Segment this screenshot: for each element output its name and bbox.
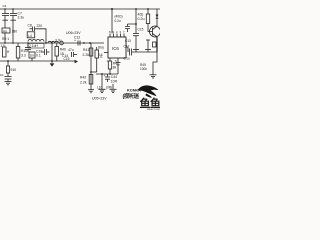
pin 5 stub	[115, 58, 118, 63]
diode D9	[29, 52, 35, 61]
inductor L3	[3, 47, 11, 57]
wire mid bus	[0, 42, 104, 44]
capacitor C9	[25, 43, 31, 52]
svg-text:10: 10	[0, 73, 4, 77]
svg-text:C14: C14	[62, 54, 68, 58]
wire low bus	[0, 60, 75, 62]
svg-text:D9: D9	[30, 54, 34, 58]
ground G5	[88, 90, 94, 93]
wire emitter drop	[90, 43, 92, 90]
wire bus to IC6	[111, 8, 113, 34]
capacitor C17	[124, 45, 132, 61]
resistor R44	[108, 61, 119, 74]
resistor R42	[80, 75, 93, 85]
wire top bus	[0, 8, 160, 10]
svg-text:U05≈23V: U05≈23V	[92, 97, 107, 101]
label L4 value box	[28, 43, 44, 48]
resistor R10	[16, 43, 27, 61]
junction dot bus right	[135, 8, 137, 10]
svg-text:www.yy.com: www.yy.com	[147, 108, 160, 110]
svg-text:180: 180	[12, 30, 18, 34]
svg-text:L10: L10	[97, 85, 103, 89]
junction dot mid bus	[83, 42, 85, 44]
svg-text:C6: C6	[3, 4, 7, 8]
pin 1 stub	[107, 58, 111, 63]
capacitor C7	[10, 9, 17, 28]
junction dots top caps	[4, 8, 14, 10]
resistor R49	[146, 8, 149, 23]
resistor R43	[95, 47, 99, 72]
capacitor C18 branch	[145, 40, 151, 52]
svg-text:0.1u: 0.1u	[124, 57, 130, 61]
label L10	[97, 85, 112, 89]
svg-text:R8: R8	[3, 29, 7, 33]
label C7 value	[18, 12, 25, 20]
svg-text:C13: C13	[125, 39, 131, 43]
svg-text:C17: C17	[124, 45, 130, 49]
capacitor C14	[62, 48, 77, 58]
svg-text:3.3u: 3.3u	[18, 16, 25, 20]
inductor L5 coil	[48, 41, 58, 43]
label R49 value	[138, 13, 145, 21]
svg-text:0.2u: 0.2u	[138, 17, 145, 21]
logo black drop	[146, 94, 153, 98]
svg-text:R41: R41	[83, 48, 89, 52]
ground arrow below node	[50, 61, 55, 67]
svg-text:(视听迷: (视听迷	[123, 92, 140, 100]
junction dots mid bus left	[4, 42, 29, 44]
inductor L4 coil	[28, 40, 44, 42]
svg-text:100k: 100k	[140, 67, 147, 71]
junction dot C8 drop	[45, 42, 47, 44]
svg-text:(0R): (0R)	[106, 85, 112, 89]
capacitor C11	[5, 73, 12, 79]
svg-text:8k: 8k	[113, 66, 117, 70]
wire bottom rail	[96, 73, 118, 75]
svg-text:L4: L4	[28, 34, 32, 38]
pin 14 stub	[99, 53, 108, 58]
ground G2	[99, 89, 106, 92]
svg-text:2.2k: 2.2k	[80, 81, 87, 85]
svg-text:C8: C8	[28, 24, 32, 28]
logo black swoosh	[138, 85, 159, 96]
wire to ground G2	[101, 74, 103, 89]
svg-text:220: 220	[37, 24, 43, 28]
op-amp U1 (IC6 box)	[108, 37, 126, 58]
wire join	[90, 71, 97, 73]
inductor L4	[27, 32, 35, 38]
wire R8 to mid bus	[5, 28, 13, 43]
pin numbers IC6 top	[109, 30, 125, 34]
ground G3	[110, 89, 117, 92]
svg-text:R42: R42	[80, 76, 86, 80]
junction dot low-left	[7, 60, 9, 62]
svg-text:R40: R40	[60, 48, 66, 52]
ground G1	[5, 79, 12, 85]
svg-text:U06≈23V: U06≈23V	[66, 31, 81, 35]
capacitor C10	[36, 49, 50, 58]
svg-text:47u: 47u	[68, 48, 74, 52]
capacitor C45	[116, 63, 121, 74]
resistor R46	[153, 42, 156, 47]
wire right rail	[132, 51, 157, 53]
svg-text:C15: C15	[138, 28, 144, 32]
transistor Q6	[148, 24, 161, 38]
svg-text:IC6: IC6	[112, 46, 119, 51]
resistor R8	[2, 28, 17, 34]
connector J1	[60, 41, 64, 45]
wire rail to ground G4	[153, 52, 157, 75]
svg-text:+: +	[74, 39, 76, 43]
wire to ground G3	[112, 84, 114, 89]
junction node x52	[51, 42, 53, 62]
resistor R40	[55, 43, 66, 61]
svg-text:C44: C44	[111, 75, 117, 79]
wire emitter to rail	[156, 37, 158, 52]
resistor R11	[6, 61, 16, 73]
svg-text:0.1: 0.1	[36, 54, 41, 58]
label R45	[140, 63, 147, 71]
diode D8	[156, 9, 159, 26]
capacitor C6	[2, 9, 9, 28]
capacitor C16 branch	[133, 9, 139, 52]
svg-text:2.2k: 2.2k	[83, 53, 90, 57]
svg-text:10R: 10R	[111, 80, 118, 84]
capacitor C13	[125, 39, 131, 52]
junction dots bottom rail	[101, 73, 111, 75]
ground G4	[150, 75, 157, 78]
svg-text:0.2u: 0.2u	[115, 19, 121, 23]
resistor R41 label	[83, 48, 90, 57]
capacitor C44	[104, 74, 118, 84]
svg-text:3.3: 3.3	[21, 54, 26, 58]
capacitor C12	[78, 41, 80, 46]
arrow low bus end	[75, 60, 78, 63]
svg-text:910: 910	[11, 68, 17, 72]
capacitor C8	[28, 24, 47, 44]
svg-text:R9 1: R9 1	[2, 37, 9, 41]
svg-text:14: 14	[99, 53, 103, 57]
resistor R41	[89, 48, 93, 56]
svg-text:(8u): (8u)	[98, 46, 104, 50]
pin stubs IC6 top	[110, 34, 124, 38]
label top small	[115, 15, 123, 23]
svg-text:2.1uH: 2.1uH	[29, 44, 38, 48]
